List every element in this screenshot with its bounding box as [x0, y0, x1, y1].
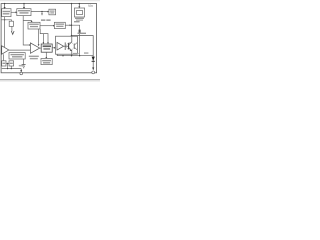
ground symbol	[22, 64, 26, 66]
comparator label	[29, 56, 39, 57]
current source box	[9, 21, 13, 26]
error amplifier triangle	[2, 46, 9, 54]
output label	[78, 33, 87, 34]
ground rail	[2, 68, 21, 70]
comparator triangle	[30, 43, 39, 53]
block A (regulator)	[2, 9, 11, 17]
ground stub from bandgap	[23, 59, 25, 65]
faint page top rule	[0, 0, 100, 2]
output line	[72, 36, 94, 68]
driver + switch box	[56, 36, 78, 54]
wire osc down to comparator top	[38, 29, 40, 45]
wire latch down to thermal	[45, 52, 47, 57]
wire VIN to block B	[23, 4, 25, 8]
GND pin circle	[20, 72, 23, 75]
transistor Q2 bars	[73, 44, 75, 50]
wire comparator to latch	[40, 47, 42, 49]
output pin circle	[92, 71, 95, 74]
block E	[49, 9, 56, 15]
ipk branch	[72, 25, 80, 56]
bandgap reference block	[9, 53, 25, 59]
small arrow below node	[41, 12, 43, 13]
IC outer boundary box	[1, 4, 97, 73]
wire B to block E	[31, 11, 48, 13]
wire R1 bottom down	[10, 66, 12, 69]
oscillator block	[28, 22, 40, 29]
reset wires into latch	[40, 29, 48, 43]
wire error amp input down to R2	[3, 54, 5, 61]
node at top border x4.6	[4, 3, 5, 4]
wire branch to oscillator	[23, 20, 31, 23]
driver bar	[64, 42, 66, 50]
wire left-border to current source	[1, 20, 11, 21]
wire below current source	[11, 26, 13, 31]
wire VIN to block F	[78, 4, 80, 7]
footer separator double rule	[0, 78, 100, 80]
node x4.6 y19.8	[4, 19, 5, 20]
wire VIN to block A	[4, 4, 6, 8]
freq shift label	[41, 19, 45, 21]
VIN vertical rail	[71, 4, 73, 37]
block D (AND / ipk)	[54, 22, 65, 28]
wire R2 to R1	[6, 62, 9, 64]
transistor Q1	[64, 45, 69, 47]
driver triangle	[57, 42, 64, 50]
arrow block D to VIN rail	[65, 24, 70, 26]
wire junction down	[7, 63, 9, 68]
thermal shutdown block	[41, 59, 52, 65]
latch block	[41, 44, 52, 52]
block F current limit	[74, 8, 84, 17]
GND label	[19, 65, 24, 67]
GND pin arrow	[20, 69, 22, 71]
label near rail	[73, 53, 79, 54]
wire block B down to comparator	[23, 16, 29, 45]
arrow below current source	[11, 31, 14, 34]
arrow oscillator to block D	[40, 25, 53, 27]
catch diode	[92, 57, 95, 61]
block B (bandgap bias)	[17, 9, 31, 16]
emitter rail	[57, 55, 93, 57]
resistor R1	[9, 61, 14, 66]
block F label below	[75, 18, 84, 19]
wire latch to driver box	[52, 47, 54, 49]
ipk label	[74, 21, 80, 22]
output pin arrow	[92, 67, 94, 70]
sense element on ipk line	[79, 30, 81, 33]
wire A to B	[11, 11, 16, 13]
svg-text:Vin: Vin	[88, 4, 93, 8]
error amp output wire to comparator	[9, 49, 31, 51]
node at top border x24	[23, 3, 24, 4]
long wire block A down to error amp	[4, 17, 6, 47]
resistor R2	[2, 61, 6, 66]
